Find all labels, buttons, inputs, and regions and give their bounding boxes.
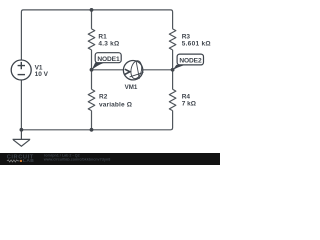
svg-text:4.3 kΩ: 4.3 kΩ (98, 40, 119, 47)
svg-text:variable Ω: variable Ω (99, 102, 132, 109)
svg-text:LAB: LAB (23, 158, 34, 164)
svg-text:R2: R2 (99, 94, 108, 101)
svg-text:10 V: 10 V (35, 71, 49, 78)
svg-text:www.circuitlab.com/c/bkkbncnv7: www.circuitlab.com/c/bkkbncnv7dyn8 (43, 157, 110, 161)
svg-text:5.601 kΩ: 5.601 kΩ (182, 41, 211, 48)
svg-text:NODE2: NODE2 (179, 58, 202, 65)
svg-text:NODE1: NODE1 (97, 56, 120, 63)
svg-text:R3: R3 (182, 34, 191, 41)
svg-text:VM1: VM1 (125, 84, 138, 91)
svg-text:7 kΩ: 7 kΩ (182, 101, 196, 108)
svg-text:R4: R4 (182, 93, 191, 100)
